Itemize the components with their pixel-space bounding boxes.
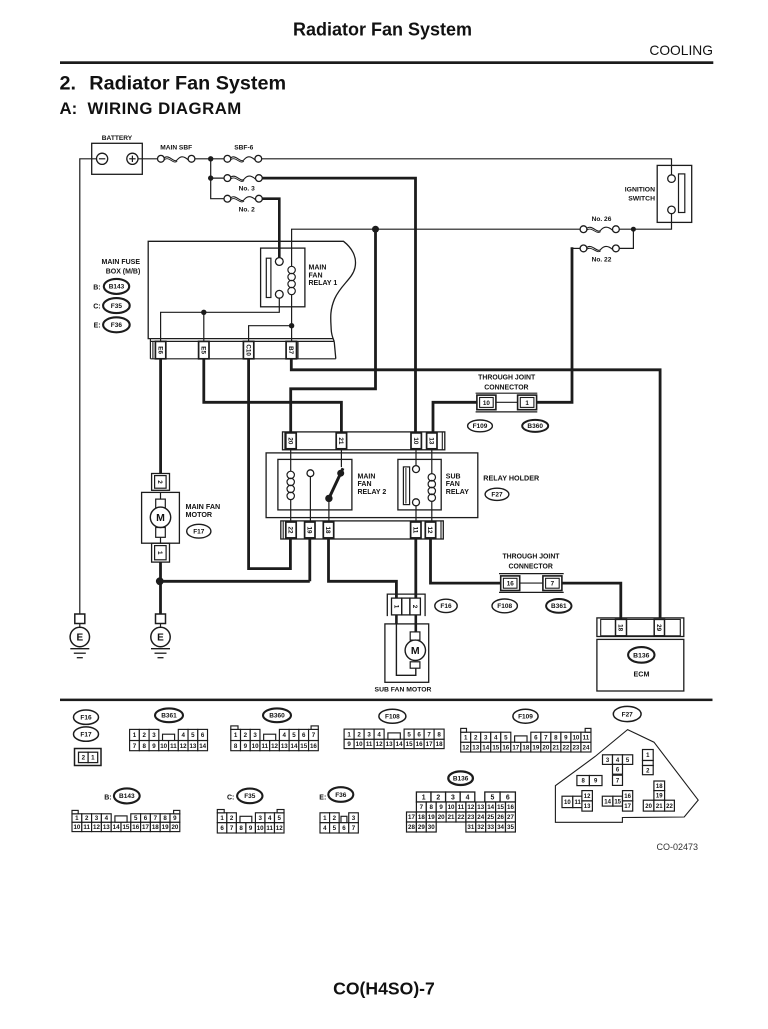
svg-text:F16: F16: [80, 715, 92, 722]
wire branch down to fuse No.22: [619, 229, 633, 248]
svg-text:13: 13: [477, 804, 484, 811]
connector F108 pinout label: [379, 709, 406, 723]
svg-text:7: 7: [551, 581, 555, 588]
svg-text:10: 10: [448, 804, 455, 811]
ECM box: [597, 639, 684, 691]
main fan relay 2 (U: MAIN FAN RELAY 2): [278, 450, 386, 521]
svg-text:3: 3: [451, 794, 455, 801]
svg-text:12: 12: [426, 526, 433, 534]
svg-text:15: 15: [497, 804, 504, 811]
node main junction (ignition feed / relay 1 coil / relay holder 20): [372, 226, 379, 233]
wire slot B7 to ECM pin 29: [291, 359, 660, 618]
connector B361 pinout label: [155, 708, 183, 722]
svg-text:F27: F27: [491, 492, 503, 499]
svg-text:29: 29: [655, 624, 662, 632]
main fan motor (M: MAIN FAN MOTOR): [142, 492, 180, 543]
svg-text:35: 35: [507, 824, 514, 831]
svg-text:9: 9: [173, 815, 177, 822]
main fuse box outline (torn edge): [148, 241, 355, 358]
main fan relay 1 (U: MAIN FAN RELAY 1): [261, 248, 338, 307]
svg-text:3: 3: [484, 734, 488, 741]
svg-text:E: E: [76, 633, 83, 644]
page footer CO(H4SO)-7: [333, 978, 435, 998]
svg-text:5: 5: [278, 815, 282, 822]
fuse No. 3: [224, 175, 262, 193]
svg-text:SBF-6: SBF-6: [234, 145, 253, 152]
svg-text:5: 5: [407, 731, 411, 738]
svg-text:23: 23: [572, 744, 579, 751]
svg-text:16: 16: [132, 824, 139, 831]
svg-text:15: 15: [300, 743, 307, 750]
svg-text:13: 13: [386, 741, 393, 748]
svg-text:14: 14: [482, 744, 489, 751]
svg-text:7: 7: [133, 743, 137, 750]
through joint connector (F109/B360): [476, 375, 538, 412]
svg-text:B360: B360: [527, 423, 543, 430]
svg-text:13: 13: [584, 804, 591, 810]
svg-text:COOLING: COOLING: [649, 43, 713, 58]
svg-text:18: 18: [152, 824, 159, 831]
svg-text:11: 11: [83, 824, 90, 831]
svg-text:17: 17: [408, 814, 415, 821]
svg-text:FAN: FAN: [309, 272, 323, 279]
svg-text:14: 14: [396, 741, 403, 748]
pin C10: [243, 341, 253, 358]
svg-text:B361: B361: [161, 713, 177, 720]
wire No.22 stub: [571, 247, 580, 249]
svg-text:10: 10: [252, 743, 259, 750]
svg-text:B143: B143: [119, 793, 135, 800]
svg-text:6: 6: [144, 815, 148, 822]
svg-text:11: 11: [262, 743, 269, 750]
fuse box connector strip: [150, 339, 335, 359]
svg-text:5: 5: [191, 732, 195, 739]
svg-text:19: 19: [656, 794, 663, 800]
svg-text:ECM: ECM: [634, 670, 650, 679]
svg-text:E5: E5: [200, 346, 207, 354]
svg-text:6: 6: [220, 825, 224, 832]
svg-text:F36: F36: [111, 322, 123, 329]
svg-text:3: 3: [258, 815, 262, 822]
svg-text:4: 4: [105, 815, 109, 822]
svg-text:23: 23: [467, 814, 474, 821]
connector B143 pinout: [72, 810, 180, 831]
connector B361 label: [546, 599, 571, 613]
svg-text:22: 22: [287, 526, 294, 534]
svg-text:16: 16: [624, 794, 631, 800]
wire slot C10 to relay holder slot 22: [249, 359, 291, 569]
svg-text:17: 17: [142, 824, 149, 831]
node motor ground junction: [156, 577, 164, 585]
svg-text:RELAY: RELAY: [446, 489, 469, 496]
wire fuse No.3 to relay holder slot 10: [262, 178, 415, 432]
ignition switch: [625, 165, 692, 222]
svg-text:6: 6: [342, 825, 346, 832]
wire fuse No.22 to TJC: [537, 247, 572, 402]
svg-text:13: 13: [428, 437, 435, 445]
svg-text:SUB: SUB: [446, 473, 461, 480]
svg-text:1: 1: [91, 755, 95, 762]
svg-text:C10: C10: [244, 344, 251, 356]
svg-text:12: 12: [462, 744, 469, 751]
svg-text:RELAY HOLDER: RELAY HOLDER: [483, 473, 540, 482]
fuse SBF-6: [224, 145, 262, 163]
svg-text:C:: C:: [93, 304, 100, 311]
svg-text:20: 20: [171, 824, 178, 831]
svg-text:16: 16: [502, 744, 509, 751]
svg-text:31: 31: [467, 824, 474, 831]
connector F16/F17 pinout: [75, 749, 102, 766]
svg-text:B:: B:: [93, 284, 100, 291]
svg-text:6: 6: [302, 732, 306, 739]
connector F35 label: [93, 298, 129, 313]
connector B143 pinout label: [104, 788, 139, 803]
svg-text:F35: F35: [244, 793, 256, 800]
svg-text:10: 10: [73, 824, 80, 831]
svg-text:2: 2: [156, 480, 163, 484]
connector F16 label: [435, 599, 457, 612]
sub fan motor connector (F16): [387, 594, 425, 616]
svg-text:32: 32: [477, 824, 484, 831]
svg-text:MAIN FUSE: MAIN FUSE: [102, 259, 141, 266]
svg-text:No. 2: No. 2: [239, 206, 255, 213]
node junction at main feed: [208, 156, 213, 161]
wire fuse No.26 to relay coil feed: [292, 229, 580, 266]
svg-text:1: 1: [156, 551, 163, 555]
svg-text:A:: A:: [60, 99, 78, 118]
wire ignition switch to fuse No.26: [619, 214, 671, 230]
wire slot E5 to relay holder slot 21: [204, 359, 342, 432]
pin 19: [305, 522, 315, 538]
svg-text:SWITCH: SWITCH: [628, 196, 655, 203]
svg-text:1: 1: [234, 732, 238, 739]
svg-text:2: 2: [436, 794, 440, 801]
relay holder upper strip: [283, 432, 445, 450]
svg-text:CONNECTOR: CONNECTOR: [509, 563, 553, 570]
svg-text:19: 19: [532, 744, 539, 751]
svg-text:16: 16: [416, 741, 423, 748]
svg-text:8: 8: [163, 815, 167, 822]
svg-text:1: 1: [347, 731, 351, 738]
svg-text:No. 26: No. 26: [592, 216, 612, 223]
svg-text:3: 3: [367, 731, 371, 738]
svg-text:F108: F108: [385, 714, 400, 721]
svg-text:9: 9: [564, 734, 568, 741]
svg-text:13: 13: [189, 743, 196, 750]
main fuse box label MAIN FUSE BOX (M/B): [102, 259, 141, 276]
svg-text:E: E: [157, 633, 164, 644]
svg-text:18: 18: [436, 741, 443, 748]
connector F108 pinout: [344, 729, 444, 749]
svg-text:8: 8: [234, 743, 238, 750]
connector F27 pinout (relay holder footprint): [555, 730, 698, 823]
wire MAIN SBF to SBF-6: [195, 158, 224, 160]
svg-text:4: 4: [181, 732, 185, 739]
connector F17 pinout label: [74, 727, 99, 741]
svg-text:3: 3: [352, 815, 356, 822]
connector F35 pinout label: [227, 789, 262, 804]
svg-text:12: 12: [93, 824, 100, 831]
svg-text:No. 22: No. 22: [592, 256, 612, 263]
svg-text:6: 6: [417, 731, 421, 738]
battery: [92, 135, 143, 174]
connector F36 label: [94, 317, 130, 332]
svg-text:RELAY 2: RELAY 2: [358, 489, 387, 496]
svg-text:11: 11: [583, 734, 590, 741]
svg-text:7: 7: [427, 731, 431, 738]
svg-text:14: 14: [291, 743, 298, 750]
svg-text:6: 6: [201, 732, 205, 739]
node junction ignition feed: [631, 227, 636, 232]
connector F16 pinout label: [74, 710, 99, 724]
wire motor to ground junction: [159, 562, 162, 614]
wire relay 1 coil to slots B7 / C10: [249, 295, 292, 342]
svg-text:1: 1: [464, 734, 468, 741]
svg-text:2: 2: [82, 755, 86, 762]
connector F109 pinout: [461, 728, 591, 752]
connector F108 label: [492, 599, 517, 613]
svg-text:11: 11: [412, 527, 419, 534]
svg-text:4: 4: [494, 734, 498, 741]
svg-text:24: 24: [583, 744, 590, 751]
svg-text:B360: B360: [269, 713, 285, 720]
section heading 2. Radiator Fan System: [60, 73, 287, 95]
svg-text:CO-02473: CO-02473: [657, 842, 699, 852]
svg-text:1: 1: [422, 794, 426, 801]
svg-text:25: 25: [487, 814, 494, 821]
svg-text:9: 9: [347, 741, 351, 748]
svg-text:17: 17: [512, 744, 519, 751]
svg-text:4: 4: [466, 794, 470, 801]
svg-text:7: 7: [230, 825, 234, 832]
svg-text:21: 21: [656, 804, 663, 810]
svg-text:F17: F17: [80, 731, 92, 738]
wire feed down to fuses No.3 / No.2: [208, 159, 224, 199]
svg-text:F16: F16: [440, 603, 452, 610]
svg-text:16: 16: [507, 804, 514, 811]
wire fuse No.2 to main fan relay 1: [262, 199, 279, 258]
connector B360 pinout: [231, 726, 318, 751]
svg-text:B143: B143: [109, 284, 125, 291]
main fan motor connector pin 2: [152, 474, 170, 491]
sub fan motor (M: SUB FAN MOTOR): [385, 615, 429, 682]
svg-text:10: 10: [257, 825, 264, 832]
sub fan relay (U: SUB FAN RELAY): [398, 450, 469, 521]
svg-text:B136: B136: [633, 652, 649, 659]
svg-text:E6: E6: [156, 346, 163, 354]
svg-text:15: 15: [122, 824, 129, 831]
fuse No. 2: [224, 195, 262, 213]
svg-text:10: 10: [412, 437, 419, 445]
svg-text:18: 18: [418, 814, 425, 821]
svg-text:1: 1: [133, 732, 137, 739]
svg-text:34: 34: [497, 824, 504, 831]
svg-text:MAIN: MAIN: [309, 265, 327, 272]
svg-text:14: 14: [113, 824, 120, 831]
pin 29 (ECM): [654, 619, 664, 635]
svg-text:12: 12: [584, 794, 591, 800]
svg-text:WIRING DIAGRAM: WIRING DIAGRAM: [88, 99, 242, 118]
svg-text:3: 3: [95, 815, 99, 822]
svg-text:2: 2: [142, 732, 146, 739]
svg-text:19: 19: [162, 824, 169, 831]
svg-text:E:: E:: [319, 794, 326, 801]
svg-text:24: 24: [477, 814, 484, 821]
ECM connector strip: [597, 618, 684, 637]
svg-text:12: 12: [467, 804, 474, 811]
svg-text:7: 7: [420, 804, 424, 811]
svg-text:14: 14: [199, 743, 206, 750]
connector B360 label: [522, 420, 548, 432]
svg-text:27: 27: [507, 814, 514, 821]
svg-text:No. 3: No. 3: [239, 186, 255, 193]
svg-text:3: 3: [253, 732, 257, 739]
svg-text:Radiator Fan System: Radiator Fan System: [293, 20, 472, 40]
svg-text:M: M: [411, 645, 420, 657]
wire TJC 7 to ECM pin 18: [562, 583, 621, 619]
svg-text:2.: 2.: [60, 73, 77, 95]
svg-text:8: 8: [430, 804, 434, 811]
svg-text:CONNECTOR: CONNECTOR: [484, 385, 528, 392]
ground (battery, left): [70, 614, 89, 658]
connector B361 pinout: [130, 729, 208, 750]
pin B7: [286, 341, 296, 358]
wire slot E6 to main fan motor: [159, 359, 162, 474]
svg-text:F109: F109: [518, 714, 533, 721]
wire relay 1 output to slots E6 / E5: [161, 298, 280, 341]
pin 13: [427, 433, 437, 449]
wire battery negative to chassis ground: [80, 159, 97, 614]
connector F36 pinout label: [319, 787, 353, 802]
separator rule above connector pinouts: [60, 699, 713, 702]
svg-text:33: 33: [487, 824, 494, 831]
svg-text:13: 13: [472, 744, 479, 751]
svg-text:6: 6: [506, 794, 510, 801]
svg-text:RELAY 1: RELAY 1: [309, 280, 338, 287]
header rule: [60, 61, 713, 64]
svg-text:11: 11: [366, 741, 373, 748]
svg-text:19: 19: [428, 814, 435, 821]
svg-text:5: 5: [292, 732, 296, 739]
wire junction to relay holder slot 19: [160, 539, 310, 581]
svg-text:17: 17: [426, 741, 433, 748]
svg-text:2: 2: [474, 734, 478, 741]
svg-text:2: 2: [244, 732, 248, 739]
svg-text:18: 18: [324, 526, 331, 534]
svg-text:30: 30: [428, 824, 435, 831]
svg-text:MOTOR: MOTOR: [186, 510, 213, 519]
svg-text:B:: B:: [104, 794, 111, 801]
svg-text:F35: F35: [111, 303, 123, 310]
wire junction down to relay holder slot 20: [291, 229, 376, 432]
fuse No. 26: [580, 216, 619, 233]
svg-text:11: 11: [266, 825, 273, 832]
pin 12: [425, 522, 435, 538]
connector F109 pinout label: [513, 709, 538, 723]
svg-text:10: 10: [564, 800, 571, 806]
svg-text:22: 22: [562, 744, 569, 751]
svg-text:10: 10: [572, 734, 579, 741]
svg-text:26: 26: [497, 814, 504, 821]
svg-text:MAIN: MAIN: [358, 473, 376, 480]
svg-text:7: 7: [154, 815, 158, 822]
svg-text:6: 6: [534, 734, 538, 741]
svg-text:4: 4: [323, 825, 327, 832]
connector F27 pinout label: [613, 706, 641, 721]
svg-text:8: 8: [437, 731, 441, 738]
svg-text:2: 2: [411, 605, 418, 609]
pin 22: [286, 522, 296, 538]
svg-text:7: 7: [352, 825, 356, 832]
svg-text:22: 22: [458, 814, 465, 821]
svg-text:3: 3: [152, 732, 156, 739]
wire SBF-6 to ignition switch: [262, 159, 672, 175]
svg-text:THROUGH JOINT: THROUGH JOINT: [478, 375, 536, 382]
svg-text:22: 22: [666, 804, 673, 810]
svg-text:CO(H4SO)-7: CO(H4SO)-7: [333, 978, 435, 998]
svg-text:B7: B7: [287, 346, 294, 355]
connector F35 pinout: [217, 810, 284, 834]
wire relay holder slot 12 to TJC 16: [431, 539, 501, 583]
svg-text:2: 2: [85, 815, 89, 822]
svg-text:10: 10: [356, 741, 363, 748]
svg-text:13: 13: [281, 743, 288, 750]
pin 10: [411, 433, 421, 449]
svg-text:18: 18: [617, 624, 624, 632]
svg-text:12: 12: [180, 743, 187, 750]
svg-text:E:: E:: [94, 323, 101, 330]
svg-text:1: 1: [220, 815, 224, 822]
svg-text:18: 18: [522, 744, 529, 751]
svg-text:M: M: [156, 512, 165, 524]
svg-text:5: 5: [134, 815, 138, 822]
svg-text:B136: B136: [453, 776, 469, 783]
svg-text:12: 12: [271, 743, 278, 750]
svg-text:15: 15: [406, 741, 413, 748]
pin E6: [155, 341, 165, 358]
svg-text:2: 2: [333, 815, 337, 822]
svg-text:20: 20: [287, 437, 294, 445]
pin 18: [323, 522, 333, 538]
connector B136 pinout label: [448, 771, 473, 785]
svg-text:12: 12: [376, 741, 383, 748]
pin E5: [199, 341, 209, 358]
svg-text:FAN: FAN: [446, 481, 460, 488]
svg-text:IGNITION: IGNITION: [625, 187, 655, 194]
svg-text:21: 21: [337, 437, 344, 445]
through joint connector (F108/B361): [499, 554, 564, 593]
fuse MAIN SBF: [158, 145, 195, 163]
svg-text:2: 2: [357, 731, 361, 738]
node junction E5 branch: [201, 310, 206, 342]
page header title: [293, 20, 472, 40]
svg-text:14: 14: [487, 804, 494, 811]
svg-text:9: 9: [244, 743, 248, 750]
svg-text:10: 10: [160, 743, 167, 750]
svg-text:1: 1: [75, 815, 79, 822]
connector B136 pinout: [407, 792, 516, 832]
ground (main fan motor): [151, 614, 170, 658]
svg-text:THROUGH JOINT: THROUGH JOINT: [502, 554, 560, 561]
svg-text:28: 28: [408, 824, 415, 831]
pin 21: [336, 433, 346, 449]
svg-text:15: 15: [492, 744, 499, 751]
svg-text:11: 11: [575, 800, 582, 806]
svg-text:14: 14: [604, 799, 611, 805]
svg-text:16: 16: [507, 581, 515, 588]
svg-text:21: 21: [448, 814, 455, 821]
svg-text:18: 18: [656, 784, 663, 790]
